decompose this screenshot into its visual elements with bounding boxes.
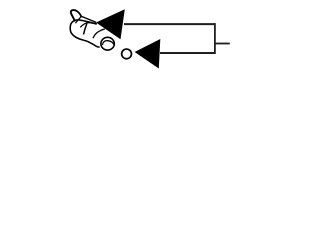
hand-drawn marker: cap shoulder arc to tip	[80, 23, 96, 28]
hand-drawn marker: string loop at top	[71, 10, 81, 21]
wire: right vertical segment	[214, 23, 216, 54]
hand-drawn marker: neck arc emerging from under A1	[93, 29, 105, 38]
wire: bottom line from corner to amplifier A2 base	[160, 52, 215, 54]
amplifier A1: large filled left-pointing triangle	[96, 9, 125, 39]
hand-drawn marker: nib inner arc	[102, 41, 114, 46]
hand-drawn marker: cap band ring	[84, 23, 87, 34]
wire: stub terminal on right	[215, 43, 230, 45]
hand-drawn marker: nib ball outline	[101, 37, 114, 50]
wire: top feedback line from amplifier A1 base to right corner	[124, 23, 215, 25]
node: small circle between marker nib and A2 tip	[122, 49, 132, 59]
amplifier A2: small filled left-pointing triangle	[135, 39, 161, 69]
hand-drawn marker: body outline (top edge, round back, belly)	[70, 20, 99, 47]
hand-drawn marker: string to A1 tip	[81, 16, 96, 22]
hand-drawn marker: string tail crossing the back cap	[75, 17, 81, 24]
